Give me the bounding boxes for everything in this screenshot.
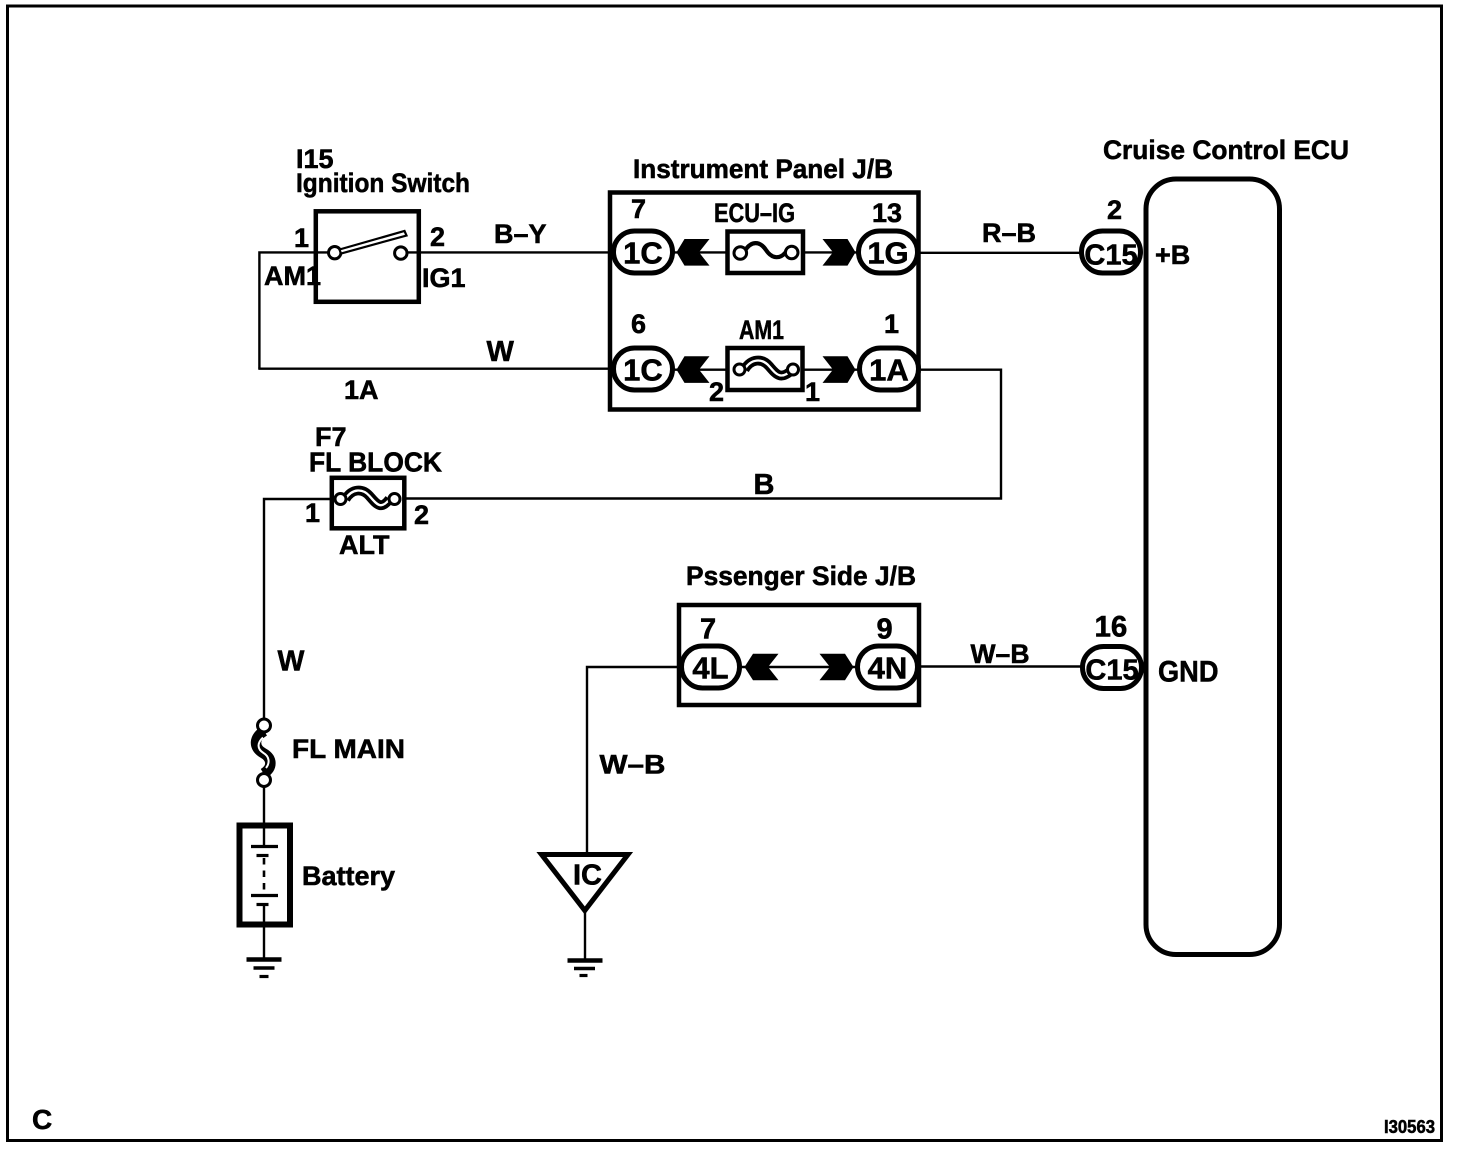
- connector 1A: [860, 348, 919, 390]
- wire fuse ECU-IG to 1G: [792, 251, 858, 253]
- svg-text:2: 2: [414, 500, 429, 530]
- svg-text:W: W: [278, 646, 305, 678]
- svg-text:2: 2: [709, 377, 724, 407]
- svg-text:1G: 1G: [867, 236, 908, 271]
- wire W: FL BLOCK pin1 down to FL MAIN: [264, 499, 336, 720]
- svg-text:7: 7: [700, 614, 716, 646]
- svg-text:1: 1: [805, 377, 820, 407]
- svg-text:Battery: Battery: [302, 861, 395, 891]
- svg-text:W: W: [487, 336, 515, 368]
- svg-text:ALT: ALT: [339, 530, 390, 560]
- svg-text:13: 13: [872, 198, 902, 228]
- svg-text:4L: 4L: [692, 651, 728, 686]
- connector C15 (+B): [1082, 231, 1141, 273]
- wire 4L to IC: [587, 667, 682, 852]
- svg-text:1C: 1C: [623, 353, 663, 388]
- svg-text:GND: GND: [1158, 656, 1219, 689]
- svg-text:C15: C15: [1085, 655, 1138, 687]
- svg-text:Ignition Switch: Ignition Switch: [296, 168, 470, 198]
- svg-text:FL BLOCK: FL BLOCK: [309, 447, 442, 478]
- svg-text:Pssenger Side J/B: Pssenger Side J/B: [686, 561, 916, 591]
- connector 1C row2: [614, 348, 673, 390]
- wire AM1 pin1 to left vertical: [259, 252, 329, 368]
- svg-text:2: 2: [430, 222, 445, 252]
- svg-text:1A: 1A: [869, 353, 909, 388]
- svg-text:W–B: W–B: [600, 750, 666, 780]
- svg-text:C15: C15: [1084, 240, 1137, 272]
- arrow left row1: [677, 239, 710, 266]
- fusible link F7 FL BLOCK: [309, 422, 442, 528]
- connector 4N: [858, 646, 918, 688]
- svg-text:1: 1: [294, 223, 309, 253]
- wire battery to ground: [263, 927, 265, 958]
- wire FL MAIN to battery: [263, 787, 265, 825]
- IC triangle: [542, 855, 629, 911]
- junction block: Pssenger Side J/B: [679, 561, 919, 705]
- arrow right row1: [823, 239, 856, 266]
- connector 4L: [682, 646, 740, 688]
- svg-text:C: C: [32, 1104, 52, 1135]
- wire W-B: 4N to C15 GND: [917, 665, 1082, 667]
- svg-text:IG1: IG1: [422, 263, 466, 293]
- svg-text:AM1: AM1: [264, 261, 321, 291]
- svg-text:7: 7: [631, 194, 646, 224]
- wire B-Y: IG1 to 1C row1: [407, 251, 613, 253]
- junction block: Instrument Panel J/B: [610, 154, 919, 410]
- svg-text:B: B: [754, 469, 775, 501]
- arrow left row2: [677, 356, 710, 383]
- arrow left (Pssenger J/B): [745, 654, 779, 681]
- fuse ECU-IG: [714, 198, 803, 273]
- svg-text:Instrument Panel J/B: Instrument Panel J/B: [633, 154, 893, 184]
- ECU: Cruise Control ECU: [1103, 135, 1349, 955]
- wire IC to ground: [584, 908, 586, 959]
- svg-text:B–Y: B–Y: [494, 219, 547, 249]
- svg-text:6: 6: [631, 309, 646, 339]
- svg-text:AM1: AM1: [739, 315, 784, 345]
- svg-text:4N: 4N: [868, 651, 908, 686]
- arrow right (Pssenger J/B): [820, 654, 854, 681]
- svg-text:R–B: R–B: [982, 218, 1036, 248]
- wire 1C row2 to fuse AM1: [672, 369, 740, 371]
- svg-text:1A: 1A: [344, 375, 379, 405]
- wire 4L to 4N: [738, 666, 858, 668]
- svg-text:2: 2: [1107, 195, 1122, 225]
- svg-text:1C: 1C: [623, 236, 663, 271]
- svg-text:1: 1: [884, 309, 899, 339]
- svg-text:FL MAIN: FL MAIN: [292, 734, 405, 764]
- connector 1C row1: [614, 231, 673, 273]
- battery: [240, 826, 396, 925]
- ground (battery): [247, 960, 282, 977]
- wire fuse AM1 to 1A: [792, 369, 858, 371]
- svg-text:9: 9: [877, 614, 893, 646]
- fuse AM1: [728, 315, 803, 390]
- wire B: 1A to FL BLOCK pin2: [399, 370, 1001, 499]
- svg-text:W–B: W–B: [971, 639, 1030, 669]
- wire 1C row1 to fuse ECU-IG: [672, 251, 740, 253]
- switch I15 Ignition Switch: [296, 144, 470, 302]
- svg-text:Cruise Control ECU: Cruise Control ECU: [1103, 135, 1349, 165]
- connector 1G: [859, 231, 918, 273]
- svg-text:I30563: I30563: [1384, 1117, 1435, 1137]
- connector C15 (GND): [1083, 647, 1142, 689]
- fusible link FL MAIN: [256, 719, 405, 787]
- svg-text:IC: IC: [573, 860, 602, 892]
- svg-text:ECU–IG: ECU–IG: [714, 198, 795, 228]
- ground (IC): [568, 961, 603, 976]
- wire R-B: 1G to C15: [919, 252, 1080, 254]
- svg-text:+B: +B: [1155, 240, 1190, 270]
- svg-text:1: 1: [305, 498, 320, 528]
- arrow right row2: [823, 356, 856, 383]
- svg-text:16: 16: [1095, 611, 1128, 644]
- wire W: vertical to 1C row2: [258, 368, 613, 370]
